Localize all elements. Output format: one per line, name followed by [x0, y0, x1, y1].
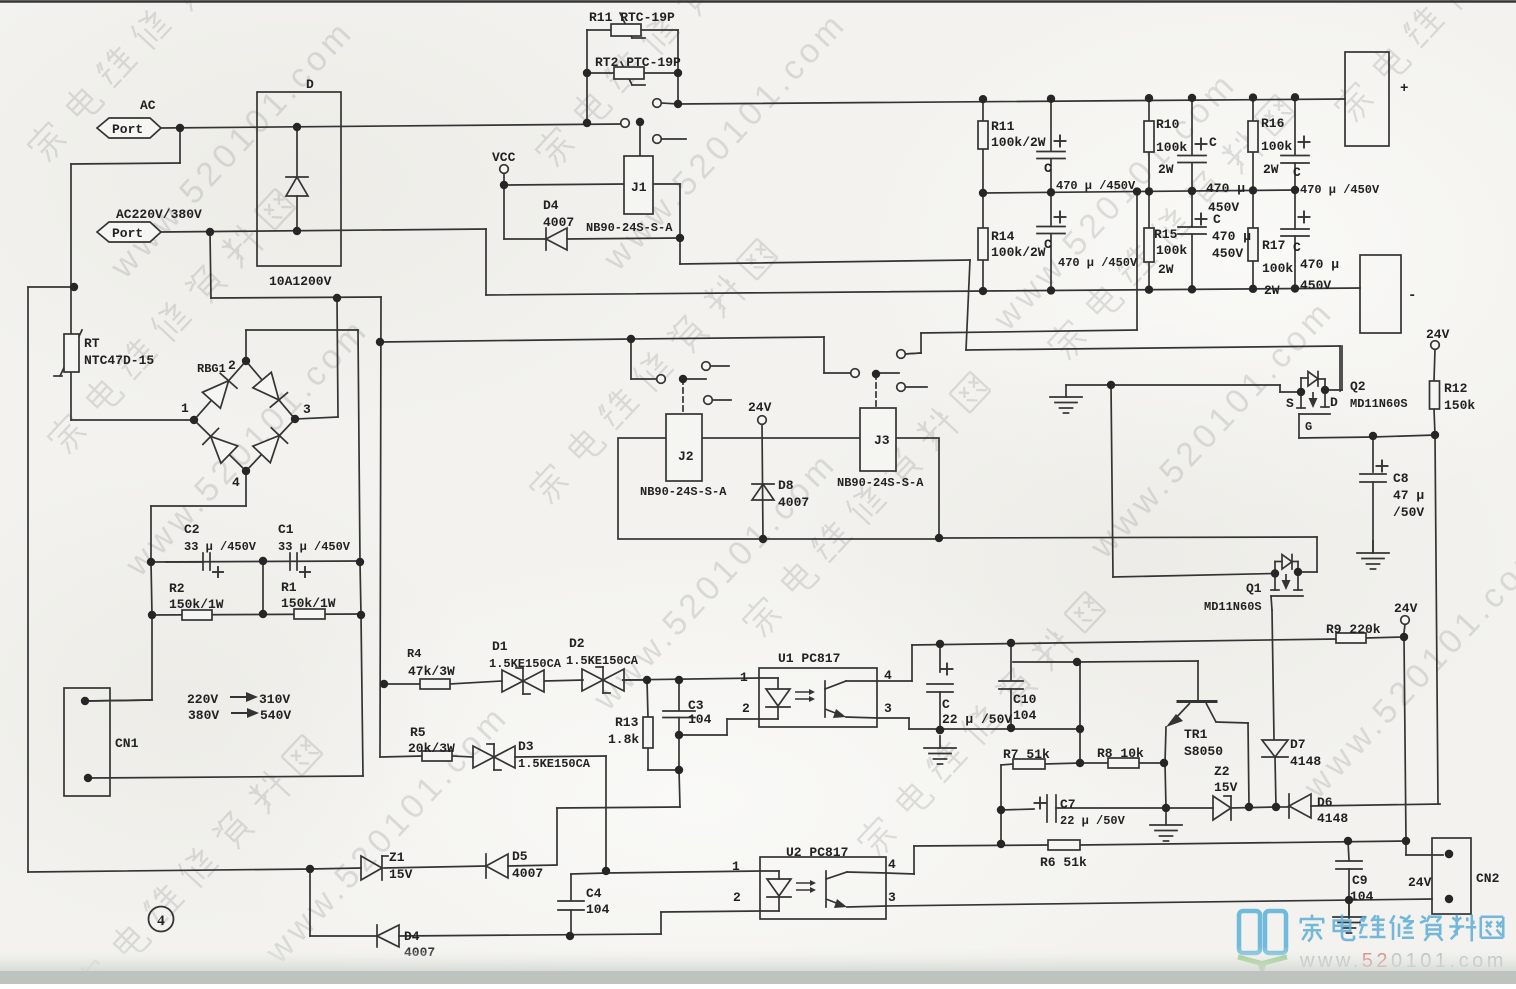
- svg-text:150k/1W: 150k/1W: [281, 596, 336, 611]
- svg-text:2W: 2W: [1158, 262, 1174, 277]
- svg-text:D: D: [1330, 395, 1338, 410]
- svg-text:100k: 100k: [1261, 139, 1292, 154]
- svg-text:1: 1: [732, 859, 740, 874]
- svg-text:C: C: [1044, 237, 1052, 252]
- svg-text:J3: J3: [874, 433, 890, 448]
- svg-text:D3: D3: [518, 739, 534, 754]
- svg-text:100k/2W: 100k/2W: [991, 245, 1046, 260]
- svg-text:C3: C3: [688, 698, 704, 713]
- svg-text:24V: 24V: [748, 400, 772, 415]
- svg-text:Port: Port: [112, 226, 143, 241]
- svg-text:100k: 100k: [1156, 243, 1187, 258]
- svg-text:4: 4: [884, 668, 892, 683]
- svg-text:33 μ /450V: 33 μ /450V: [184, 540, 257, 554]
- svg-text:10A1200V: 10A1200V: [269, 274, 332, 289]
- svg-text:4148: 4148: [1290, 754, 1321, 769]
- svg-text:D6: D6: [1317, 795, 1333, 810]
- svg-text:220V: 220V: [187, 692, 218, 707]
- svg-text:C2: C2: [184, 522, 200, 537]
- svg-text:1.5KE150CA: 1.5KE150CA: [566, 654, 639, 668]
- svg-text:3: 3: [888, 890, 896, 905]
- svg-text:R14: R14: [991, 229, 1015, 244]
- svg-text:NTC47D-15: NTC47D-15: [84, 353, 154, 368]
- svg-text:R15: R15: [1154, 227, 1178, 242]
- svg-text:G: G: [1305, 420, 1312, 434]
- svg-text:R8 10k: R8 10k: [1097, 746, 1144, 761]
- svg-text:/50V: /50V: [1393, 505, 1424, 520]
- svg-text:1.5KE150CA: 1.5KE150CA: [518, 757, 591, 771]
- svg-text:1: 1: [181, 401, 189, 416]
- svg-text:150k: 150k: [1444, 398, 1475, 413]
- svg-text:MD11N60S: MD11N60S: [1204, 600, 1262, 614]
- svg-text:450V: 450V: [1212, 246, 1243, 261]
- svg-text:3: 3: [884, 701, 892, 716]
- svg-text:47 μ: 47 μ: [1393, 488, 1424, 503]
- svg-text:+: +: [1400, 81, 1408, 97]
- svg-text:1.8k: 1.8k: [608, 732, 639, 747]
- svg-text:C9: C9: [1352, 873, 1368, 888]
- svg-text:C: C: [1044, 161, 1052, 176]
- svg-text:470 μ /450V: 470 μ /450V: [1300, 183, 1380, 197]
- svg-text:150k/1W: 150k/1W: [169, 597, 224, 612]
- svg-text:TR1: TR1: [1184, 727, 1208, 742]
- svg-text:Port: Port: [112, 122, 143, 137]
- svg-text:4007: 4007: [512, 866, 543, 881]
- svg-text:U2 PC817: U2 PC817: [786, 845, 848, 860]
- svg-text:R13: R13: [615, 715, 639, 730]
- svg-text:R9 220k: R9 220k: [1326, 622, 1381, 637]
- svg-text:470 μ /450V: 470 μ /450V: [1058, 256, 1138, 270]
- svg-text:22 μ /50V: 22 μ /50V: [942, 712, 1012, 727]
- svg-text:C7: C7: [1060, 797, 1076, 812]
- svg-text:24V: 24V: [1394, 601, 1418, 616]
- svg-text:R6 51k: R6 51k: [1040, 855, 1087, 870]
- svg-text:100k/2W: 100k/2W: [991, 135, 1046, 150]
- svg-text:4: 4: [157, 913, 165, 929]
- svg-text:RBG1: RBG1: [197, 362, 226, 376]
- svg-text:15V: 15V: [1214, 780, 1238, 795]
- svg-text:104: 104: [688, 712, 712, 727]
- svg-text:D: D: [306, 77, 314, 92]
- svg-text:C: C: [1213, 212, 1221, 227]
- svg-text:4: 4: [232, 475, 240, 490]
- svg-text:D4: D4: [543, 198, 559, 213]
- svg-text:2: 2: [228, 358, 236, 373]
- svg-text:R1: R1: [281, 580, 297, 595]
- svg-text:22 μ /50V: 22 μ /50V: [1060, 814, 1126, 828]
- svg-text:310V: 310V: [259, 692, 290, 707]
- svg-text:R7 51k: R7 51k: [1003, 747, 1050, 762]
- svg-text:2W: 2W: [1264, 283, 1280, 298]
- svg-text:4148: 4148: [1317, 811, 1348, 826]
- svg-text:Z1: Z1: [389, 850, 405, 865]
- svg-text:4007: 4007: [543, 215, 574, 230]
- svg-text:470 μ /450V: 470 μ /450V: [1056, 179, 1136, 193]
- svg-text:Q2: Q2: [1350, 379, 1366, 394]
- svg-text:R11 RTC-19P: R11 RTC-19P: [589, 10, 675, 25]
- svg-text:AC: AC: [140, 98, 156, 113]
- svg-text:540V: 540V: [260, 708, 291, 723]
- svg-text:Z2: Z2: [1214, 764, 1230, 779]
- svg-text:NB90-24S-S-A: NB90-24S-S-A: [837, 476, 924, 490]
- svg-text:104: 104: [1013, 708, 1037, 723]
- svg-text:104: 104: [1350, 889, 1374, 904]
- svg-text:3: 3: [303, 402, 311, 417]
- svg-text:24V: 24V: [1408, 875, 1432, 890]
- svg-text:D2: D2: [569, 636, 585, 651]
- svg-text:VCC: VCC: [492, 150, 516, 165]
- svg-text:100k: 100k: [1262, 261, 1293, 276]
- svg-text:24V: 24V: [1426, 327, 1450, 342]
- svg-text:S8050: S8050: [1184, 744, 1223, 759]
- svg-text:R2: R2: [169, 581, 185, 596]
- svg-text:C10: C10: [1013, 692, 1037, 707]
- svg-text:D5: D5: [512, 849, 528, 864]
- svg-text:4007: 4007: [778, 495, 809, 510]
- svg-text:47k/3W: 47k/3W: [408, 664, 455, 679]
- svg-text:AC220V/380V: AC220V/380V: [116, 207, 202, 222]
- svg-text:470 μ: 470 μ: [1300, 257, 1339, 272]
- svg-text:C1: C1: [278, 522, 294, 537]
- svg-text:D4: D4: [404, 929, 420, 944]
- svg-text:D8: D8: [778, 478, 794, 493]
- svg-text:15V: 15V: [389, 867, 413, 882]
- svg-text:1.5KE150CA: 1.5KE150CA: [489, 657, 562, 671]
- svg-text:Q1: Q1: [1246, 581, 1262, 596]
- svg-text:C: C: [1293, 165, 1301, 180]
- svg-text:U1 PC817: U1 PC817: [778, 651, 840, 666]
- svg-text:450V: 450V: [1300, 278, 1331, 293]
- svg-text:R10: R10: [1156, 117, 1180, 132]
- svg-text:R4: R4: [407, 647, 421, 661]
- svg-text:NB90-24S-S-A: NB90-24S-S-A: [586, 221, 673, 235]
- svg-text:470 μ: 470 μ: [1212, 229, 1251, 244]
- svg-text:4: 4: [888, 857, 896, 872]
- svg-text:2: 2: [742, 701, 750, 716]
- svg-text:-: -: [1408, 288, 1416, 304]
- svg-text:C8: C8: [1393, 471, 1409, 486]
- svg-text:D7: D7: [1290, 737, 1306, 752]
- svg-text:2W: 2W: [1263, 162, 1279, 177]
- svg-text:C: C: [942, 697, 950, 712]
- svg-text:1: 1: [740, 670, 748, 685]
- svg-text:RT: RT: [84, 336, 100, 351]
- svg-text:CN1: CN1: [115, 736, 139, 751]
- svg-text:R11: R11: [991, 119, 1015, 134]
- svg-text:2: 2: [733, 890, 741, 905]
- svg-text:RT2 PTC-19P: RT2 PTC-19P: [595, 55, 681, 70]
- svg-text:470 μ: 470 μ: [1206, 181, 1245, 196]
- svg-text:S: S: [1286, 396, 1294, 411]
- svg-text:R12: R12: [1444, 381, 1468, 396]
- svg-text:C4: C4: [586, 886, 602, 901]
- svg-text:J1: J1: [631, 180, 647, 195]
- svg-text:R5: R5: [410, 725, 426, 740]
- svg-text:D1: D1: [492, 639, 508, 654]
- svg-text:100k: 100k: [1156, 140, 1187, 155]
- svg-text:J2: J2: [678, 449, 694, 464]
- svg-text:NB90-24S-S-A: NB90-24S-S-A: [640, 485, 727, 499]
- svg-text:380V: 380V: [188, 708, 219, 723]
- svg-text:C: C: [1293, 240, 1301, 255]
- svg-text:104: 104: [586, 902, 610, 917]
- svg-text:CN2: CN2: [1476, 871, 1500, 886]
- svg-text:R17: R17: [1262, 238, 1285, 253]
- svg-text:MD11N60S: MD11N60S: [1350, 397, 1408, 411]
- svg-text:33 μ /450V: 33 μ /450V: [278, 540, 351, 554]
- svg-text:2W: 2W: [1158, 162, 1174, 177]
- svg-text:R16: R16: [1261, 116, 1285, 131]
- svg-text:20k/3W: 20k/3W: [408, 741, 455, 756]
- svg-text:C: C: [1209, 135, 1217, 150]
